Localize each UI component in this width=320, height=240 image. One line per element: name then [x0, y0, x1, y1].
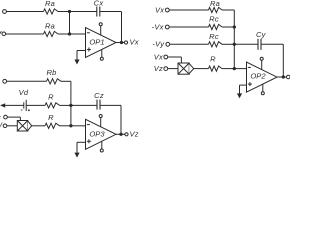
- wire to OP1 inverting input: [70, 33, 86, 35]
- wire to OP3 inverting input: [71, 125, 86, 127]
- svg-text:Rc: Rc: [209, 15, 219, 24]
- terminal (OP2 output, clipped): [287, 75, 291, 79]
- wire: [6, 33, 44, 35]
- wire bus: [69, 12, 71, 35]
- ground (OP2): [239, 85, 241, 94]
- wire: [222, 26, 234, 28]
- wire: [121, 133, 125, 135]
- wire: [58, 33, 70, 35]
- svg-text:Rc: Rc: [209, 32, 219, 41]
- terminal Vz: [164, 67, 168, 71]
- capacitor Cx: [96, 7, 98, 17]
- wire: [100, 11, 122, 13]
- terminal Vx: [124, 41, 127, 44]
- junction row3/bus: [233, 43, 236, 46]
- svg-text:Cz: Cz: [94, 91, 104, 100]
- junction bus/inverting input: [69, 124, 72, 127]
- wire: [7, 80, 47, 82]
- wire bus: [70, 81, 72, 126]
- svg-text:OP1: OP1: [89, 38, 104, 47]
- wire OP2 output: [277, 76, 283, 78]
- wire OP1 output: [116, 42, 122, 44]
- input terminal (row 1): [3, 10, 7, 14]
- wire: [283, 76, 286, 78]
- wire: [7, 125, 17, 127]
- resistor Rb: [47, 79, 62, 84]
- left continuation arrow (Vd row): [0, 103, 5, 107]
- wire: [222, 9, 234, 11]
- resistor Rc (row 2): [209, 24, 223, 29]
- wire: [58, 11, 70, 13]
- wire: [222, 68, 234, 70]
- circuit schematic: three op-amp integrator blocks with multipliers: [0, 0, 290, 158]
- junction row2/bus: [68, 32, 71, 35]
- resistor Rc (row 3): [209, 42, 223, 47]
- capacitor Cy: [257, 39, 259, 50]
- svg-text:Ra: Ra: [45, 22, 55, 31]
- terminal Vz: [125, 133, 128, 136]
- wire: [170, 43, 209, 45]
- svg-text:Cy: Cy: [256, 30, 267, 39]
- svg-text:Vd: Vd: [19, 88, 29, 97]
- wire: [7, 116, 20, 118]
- junction bus/inverting input: [233, 67, 236, 70]
- wire down to multiplier: [19, 117, 21, 120]
- svg-text:OP3: OP3: [89, 130, 105, 139]
- resistor Ra: [209, 7, 223, 12]
- wire from OP3 + input: [77, 141, 86, 143]
- wire: [100, 104, 121, 106]
- terminal Vx (multiplier): [164, 55, 168, 59]
- ground (OP3): [76, 142, 78, 153]
- resistor R (multiplier row): [209, 66, 223, 71]
- wire: [7, 11, 44, 13]
- input terminal (Rb row): [3, 79, 7, 83]
- wire OP3 output: [116, 133, 121, 135]
- svg-text:Rb: Rb: [46, 68, 56, 77]
- svg-text:Vx: Vx: [155, 5, 164, 14]
- junction row1/bus: [68, 10, 71, 13]
- wire feedback down: [121, 12, 123, 43]
- multiplier M1 (Vx*Vz): [178, 63, 194, 74]
- wire to Cx: [70, 11, 97, 13]
- wire down to multiplier: [180, 57, 182, 63]
- junction Vd row/bus: [69, 104, 72, 107]
- multiplier M2: [17, 121, 31, 132]
- wire: [168, 56, 182, 58]
- wire: [26, 104, 45, 106]
- svg-text:R: R: [48, 113, 54, 122]
- resistor Ra (row 2): [44, 31, 59, 36]
- node Vz junction: [119, 133, 122, 136]
- wire: [222, 43, 234, 45]
- terminal -Vx: [165, 25, 169, 29]
- wire: [60, 104, 71, 106]
- terminal Vx: [165, 8, 169, 12]
- wire to Cz: [71, 104, 97, 106]
- wire: [168, 68, 178, 70]
- op-amp OP2: [247, 57, 278, 95]
- svg-text:-Vx: -Vx: [152, 22, 164, 31]
- wire: [4, 104, 24, 106]
- wire: [194, 68, 209, 70]
- ground (OP1): [76, 51, 78, 61]
- capacitor Cz: [96, 100, 98, 110]
- svg-text:c: c: [0, 114, 1, 121]
- resistor R (bottom multiplier row): [45, 123, 60, 128]
- wire: [169, 26, 208, 28]
- battery Vd (short/long plates): [23, 102, 25, 108]
- wire bus: [233, 10, 235, 69]
- svg-text:Ra: Ra: [45, 0, 55, 8]
- wire: [32, 125, 45, 127]
- clipped label fragment (row 2 input): [0, 31, 1, 33]
- svg-text:R: R: [48, 92, 54, 101]
- wire from OP2 + input: [240, 84, 247, 86]
- wire to Cy: [234, 43, 258, 45]
- wire: [261, 43, 283, 45]
- node Vx junction: [120, 41, 123, 44]
- op-amp OP3: [86, 115, 117, 153]
- wire from OP1 + input: [77, 50, 86, 52]
- svg-text:Vx: Vx: [154, 52, 163, 61]
- input terminal (multiplier left): [3, 124, 7, 128]
- input terminal (row 2): [2, 32, 6, 36]
- svg-text:Vx: Vx: [130, 38, 139, 47]
- svg-text:Cx: Cx: [94, 0, 104, 8]
- wire: [122, 42, 125, 44]
- svg-text:-Vy: -Vy: [152, 40, 165, 49]
- resistor Ra (row 1): [44, 9, 59, 14]
- svg-text:Ra: Ra: [210, 0, 220, 8]
- wire feedback down: [120, 105, 122, 134]
- terminal -Vy: [166, 42, 170, 46]
- svg-text:Vz: Vz: [154, 64, 163, 73]
- svg-text:R: R: [210, 54, 216, 63]
- junction row2/bus: [233, 25, 236, 28]
- resistor R (Vd row): [45, 103, 60, 108]
- wire: [169, 9, 208, 11]
- node junction (OP2 out): [282, 75, 285, 78]
- wire: [61, 80, 71, 82]
- svg-text:Vz: Vz: [130, 130, 139, 139]
- wire to OP2 inverting input: [234, 68, 246, 70]
- svg-text:OP2: OP2: [250, 71, 266, 80]
- op-amp OP1: [86, 23, 117, 61]
- wire: [60, 125, 71, 127]
- input terminal (multiplier top): [4, 115, 8, 119]
- wire feedback down: [282, 44, 284, 77]
